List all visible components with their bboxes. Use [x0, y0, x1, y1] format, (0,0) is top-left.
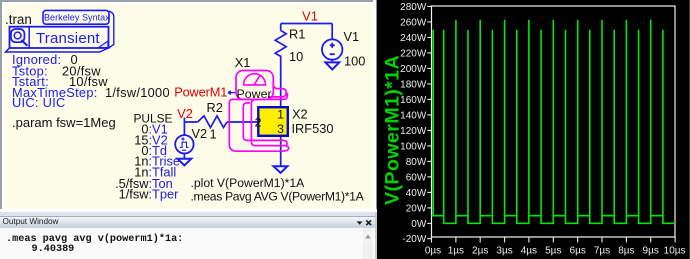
svg-text:260W: 260W	[400, 17, 427, 28]
svg-text:Berkeley Syntax: Berkeley Syntax	[44, 13, 110, 23]
logo corner fold	[98, 41, 108, 48]
resistor R1	[275, 31, 286, 59]
svg-text:R2: R2	[207, 100, 223, 115]
x axis labels and ticks	[425, 237, 686, 257]
power meter X1 sense loop	[229, 93, 288, 152]
svg-text:.tran: .tran	[5, 12, 32, 27]
svg-text:1: 1	[210, 127, 217, 142]
pulse source V2	[175, 135, 193, 153]
svg-text:5µs: 5µs	[545, 246, 561, 257]
lead line from PowerM1 label to Power pin	[228, 91, 235, 95]
svg-text:200W: 200W	[400, 64, 427, 75]
svg-text:0W: 0W	[411, 219, 427, 230]
svg-text:X2: X2	[292, 106, 308, 121]
Transient logo main box	[6, 27, 109, 52]
svg-text:120W: 120W	[400, 126, 427, 137]
logo Q emblem	[11, 29, 27, 46]
mosfet X2 symbol box	[258, 107, 288, 136]
Berkeley Syntax tab	[43, 10, 109, 24]
svg-text:2µs: 2µs	[472, 246, 488, 257]
svg-text:-20W: -20W	[402, 234, 426, 245]
meter dial	[244, 74, 266, 85]
svg-text:3: 3	[277, 122, 284, 136]
schematic window	[0, 0, 377, 212]
svg-text:240W: 240W	[400, 33, 427, 44]
svg-text:60W: 60W	[406, 172, 427, 183]
svg-text:1: 1	[277, 107, 284, 121]
power meter X1 outline	[268, 81, 286, 97]
svg-text:280W: 280W	[400, 2, 427, 13]
svg-text:160W: 160W	[400, 95, 427, 106]
svg-text:IRF530: IRF530	[292, 121, 334, 136]
svg-text:V2: V2	[192, 126, 208, 141]
svg-text:40W: 40W	[406, 188, 427, 199]
wire V1 node to source V1	[331, 24, 333, 40]
svg-text:10µs: 10µs	[664, 246, 686, 257]
svg-text:4µs: 4µs	[521, 246, 537, 257]
wire top net V1	[184, 24, 332, 167]
voltage source V1	[322, 39, 342, 59]
svg-text:180W: 180W	[400, 79, 427, 90]
wire R1 to X2 drain pin 1	[280, 59, 282, 108]
wire V2 source to ground	[183, 153, 185, 159]
svg-text:1µs: 1µs	[448, 246, 464, 257]
svg-text:PowerM1: PowerM1	[174, 85, 227, 100]
svg-text:1/fsw: 1/fsw	[119, 187, 150, 202]
power meter X1 inner loop	[243, 103, 287, 145]
svg-text:.plot V(PowerM1)*1A: .plot V(PowerM1)*1A	[191, 176, 306, 190]
wire X2 pin 3 to ground	[280, 136, 282, 166]
PULSE parameter list for V2	[115, 112, 180, 202]
meter needle	[254, 75, 260, 85]
y axis labels and ticks	[400, 2, 431, 245]
svg-text:9µs: 9µs	[643, 246, 659, 257]
svg-text:100: 100	[344, 54, 365, 69]
svg-text:3µs: 3µs	[496, 246, 512, 257]
svg-text:20W: 20W	[406, 203, 427, 214]
wire V1 source to ground	[331, 60, 333, 63]
svg-text:Power: Power	[237, 87, 272, 101]
plot border	[432, 6, 676, 237]
wire R2 to X2 pin 2	[227, 121, 258, 123]
svg-text:V1: V1	[302, 9, 318, 24]
svg-text::Tper: :Tper	[149, 187, 180, 202]
svg-text:.meas Pavg AVG V(PowerM1)*1A: .meas Pavg AVG V(PowerM1)*1A	[191, 190, 365, 204]
svg-text:R1: R1	[289, 27, 305, 42]
waveform window	[377, 0, 690, 259]
waveform trace V(PowerM1)*1A	[432, 20, 676, 224]
svg-text:Transient: Transient	[36, 30, 100, 47]
ground under V2	[177, 159, 191, 166]
svg-text:220W: 220W	[400, 48, 427, 59]
svg-text:140W: 140W	[400, 110, 427, 121]
resistor R2	[198, 116, 227, 128]
output window panel	[0, 212, 377, 259]
ground under X2	[274, 166, 288, 173]
power meter X1 head	[236, 71, 273, 100]
svg-text:8µs: 8µs	[618, 246, 634, 257]
svg-text:7µs: 7µs	[594, 246, 610, 257]
svg-text:0µs: 0µs	[425, 246, 441, 257]
svg-text:80W: 80W	[406, 157, 427, 168]
ground under V1	[325, 62, 339, 69]
tran parameters block	[12, 52, 170, 110]
wire V1 node to R1	[280, 24, 282, 31]
svg-text:UIC: UIC: UIC: UIC	[12, 95, 66, 110]
svg-text:10: 10	[289, 49, 303, 64]
svg-text:100W: 100W	[400, 141, 427, 152]
svg-text:6µs: 6µs	[570, 246, 586, 257]
svg-text:2: 2	[255, 116, 262, 130]
svg-text:V1: V1	[344, 29, 360, 44]
svg-text:1/fsw/1000: 1/fsw/1000	[105, 85, 170, 100]
svg-text:.param fsw=1Meg: .param fsw=1Meg	[12, 115, 116, 130]
svg-text:X1: X1	[235, 55, 251, 70]
wire V2 source to R2	[184, 118, 197, 136]
